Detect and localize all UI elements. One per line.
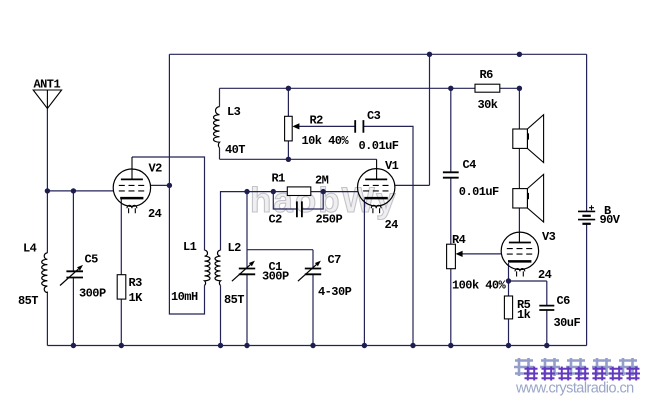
wire right rail upper — [586, 54, 588, 211]
node ground R3 — [119, 343, 124, 348]
svg-text:V2: V2 — [149, 162, 163, 176]
tube V2 — [113, 157, 150, 213]
svg-text:1k: 1k — [517, 308, 531, 322]
svg-text:V1: V1 — [385, 159, 399, 173]
svg-text:V3: V3 — [542, 230, 556, 244]
svg-text:L2: L2 — [228, 241, 242, 255]
wire R4 wiper to V3 — [459, 253, 502, 255]
node ground C7 — [310, 343, 315, 348]
svg-text:24: 24 — [385, 218, 399, 232]
wire bottom ground rail — [47, 345, 586, 347]
svg-text:L1: L1 — [183, 240, 197, 254]
svg-text:300P: 300P — [79, 287, 106, 301]
svg-text:0.01uF: 0.01uF — [359, 139, 399, 153]
capacitor C6 — [539, 306, 554, 310]
svg-text:C2: C2 — [269, 213, 283, 227]
node mid rail / R2 top — [286, 86, 291, 91]
svg-text:C5: C5 — [85, 253, 99, 267]
svg-text:ANT1: ANT1 — [34, 78, 61, 92]
node V2 grid junction — [167, 183, 172, 188]
svg-text:30k: 30k — [478, 98, 498, 112]
node ground V1 cathode — [362, 343, 367, 348]
node ground C3 — [410, 343, 415, 348]
svg-text:24: 24 — [538, 268, 552, 282]
node top rail / speaker rail — [517, 52, 522, 57]
wire R2 leads — [287, 88, 289, 159]
wire C3 to ground drop — [364, 126, 414, 345]
node ground C5 — [71, 343, 76, 348]
svg-text:C3: C3 — [367, 109, 381, 123]
speaker SP2 — [513, 174, 544, 222]
inductor L3 — [214, 107, 220, 148]
wire C1 branch — [246, 192, 248, 346]
speaker SP1 — [513, 115, 544, 163]
svg-text:30uF: 30uF — [554, 316, 581, 330]
svg-text:R6: R6 — [480, 68, 494, 82]
capacitor C7 (variable) — [305, 269, 321, 275]
svg-text:C6: C6 — [557, 294, 571, 308]
wire V1 screen right — [395, 184, 430, 186]
svg-text:C7: C7 — [328, 253, 342, 267]
node ground R4 — [448, 343, 453, 348]
wire C6 link — [509, 281, 547, 346]
wire L3 bottom to V1 plate — [220, 158, 377, 160]
wire R4 bottom — [450, 269, 452, 346]
wire screen rail mid — [220, 87, 520, 89]
svg-text:90V: 90V — [600, 213, 621, 227]
capacitor C2 — [297, 201, 302, 217]
inductor L2 — [215, 250, 221, 285]
node ground L2 — [218, 343, 223, 348]
wire R2 wiper to C3 — [296, 125, 355, 127]
capacitor C4 — [443, 172, 459, 177]
watermark bottom-right foreground CJK — [524, 367, 640, 381]
svg-text:100k 40%: 100k 40% — [452, 279, 507, 293]
wire L2 top to grid line — [221, 192, 359, 251]
wire C7 branch — [247, 250, 313, 346]
svg-text:0.01uF: 0.01uF — [459, 185, 499, 199]
potentiometer R4 — [447, 244, 456, 269]
svg-text:4-30P: 4-30P — [318, 285, 352, 299]
watermark center haoDVY — [250, 181, 397, 220]
watermark bottom-right background CJK — [514, 358, 638, 376]
wire L4 leads — [46, 191, 48, 346]
resistor R5 — [504, 296, 512, 319]
node V3 cathode / C6 — [506, 278, 511, 283]
inductor L1 — [205, 250, 211, 285]
node C2 left junction — [271, 189, 276, 194]
wire C5 branch — [72, 191, 74, 346]
wire L3 leads — [219, 88, 221, 159]
tube V3 — [501, 232, 538, 277]
svg-text:L4: L4 — [23, 242, 37, 256]
svg-text:10k 40%: 10k 40% — [302, 134, 350, 148]
wire left drop from top rail to L1 bottom link — [169, 54, 204, 314]
wire L2 bottom — [220, 286, 222, 346]
wire C2 loop — [273, 192, 323, 209]
svg-text:R1: R1 — [272, 172, 286, 186]
battery B — [578, 205, 595, 224]
wire V2 grid right — [150, 184, 169, 186]
wire speaker chain — [518, 88, 520, 232]
potentiometer R2 — [285, 116, 293, 141]
wire V3 cathode to R5 — [508, 263, 510, 346]
svg-text:www.crystalradio.cn: www.crystalradio.cn — [515, 381, 634, 397]
node C2 right junction — [321, 189, 326, 194]
node R2 bottom / plate line — [286, 157, 291, 162]
node top rail / screen drop — [427, 52, 432, 57]
node mid rail / R6 right — [517, 86, 522, 91]
antenna ANT1 — [33, 90, 61, 109]
capacitor C3 — [355, 120, 363, 133]
node mid rail / C4 top — [448, 86, 453, 91]
node antenna junction — [45, 188, 50, 193]
node C1 top junction — [244, 189, 249, 194]
node ground C1 — [244, 343, 249, 348]
inductor L4 — [42, 253, 48, 293]
wire antenna drop — [46, 109, 48, 191]
wire V1 cathode drop — [363, 200, 365, 346]
resistor R6 — [475, 84, 500, 92]
svg-text:1K: 1K — [129, 291, 144, 305]
svg-text:250P: 250P — [316, 213, 343, 227]
resistor R1 — [287, 187, 311, 196]
svg-text:24: 24 — [148, 207, 162, 221]
svg-text:L3: L3 — [227, 105, 241, 119]
svg-text:10mH: 10mH — [171, 290, 198, 304]
svg-text:40T: 40T — [225, 143, 245, 157]
wire right rail lower — [586, 224, 588, 346]
wire top rail — [169, 53, 586, 55]
wire C4 branch — [450, 88, 452, 244]
wire antenna to V2 — [47, 190, 113, 192]
svg-text:300P: 300P — [262, 270, 289, 284]
wire R3 branch — [120, 199, 122, 346]
node C5 top junction — [71, 188, 76, 193]
wire L1 top to V2 plate — [132, 157, 205, 250]
svg-text:85T: 85T — [18, 294, 38, 308]
svg-text:85T: 85T — [224, 293, 244, 307]
node ground R5 — [506, 343, 511, 348]
svg-text:R3: R3 — [129, 276, 143, 290]
svg-text:R2: R2 — [310, 114, 324, 128]
svg-text:C4: C4 — [463, 158, 477, 172]
capacitor C1 (variable) — [239, 269, 255, 275]
wire screen drop from top rail — [429, 54, 431, 185]
svg-text:R4: R4 — [452, 233, 466, 247]
node ground C6 — [544, 343, 549, 348]
svg-text:2M: 2M — [315, 174, 329, 188]
tube V1 — [358, 159, 395, 213]
resistor R3 — [117, 275, 126, 299]
capacitor C5 (variable) — [66, 271, 83, 277]
